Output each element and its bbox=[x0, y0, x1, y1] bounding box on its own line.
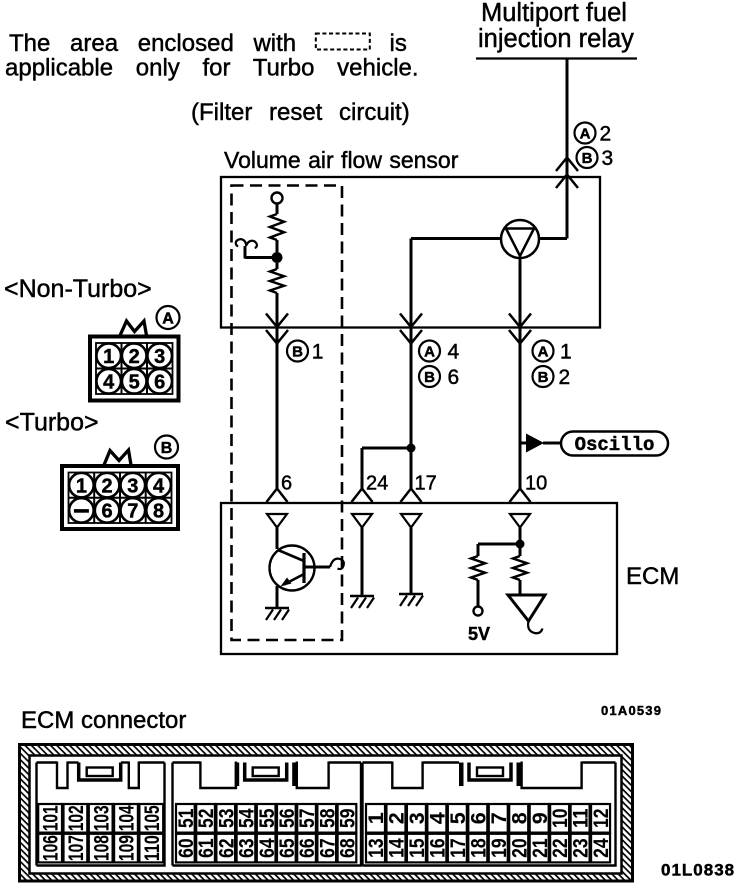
svg-text:4: 4 bbox=[103, 372, 115, 394]
svg-text:12: 12 bbox=[589, 809, 613, 829]
svg-text:6: 6 bbox=[448, 366, 460, 389]
svg-text:59: 59 bbox=[336, 809, 360, 829]
svg-text:3: 3 bbox=[127, 475, 138, 497]
svg-text:Volume air flow sensor: Volume air flow sensor bbox=[224, 147, 459, 173]
svg-text:3: 3 bbox=[602, 147, 614, 170]
svg-text:110: 110 bbox=[140, 835, 164, 861]
svg-text:68: 68 bbox=[336, 838, 360, 858]
svg-text:1: 1 bbox=[103, 346, 114, 368]
svg-text:B: B bbox=[161, 440, 173, 457]
svg-text:17: 17 bbox=[415, 473, 437, 495]
svg-text:2: 2 bbox=[102, 475, 113, 497]
svg-text:A: A bbox=[538, 343, 549, 360]
svg-text:ECM connector: ECM connector bbox=[21, 707, 186, 734]
svg-text:10: 10 bbox=[525, 473, 547, 495]
svg-text:1: 1 bbox=[312, 341, 324, 364]
svg-text:<Non-Turbo>: <Non-Turbo> bbox=[4, 275, 152, 303]
svg-text:B: B bbox=[538, 369, 549, 386]
svg-text:A: A bbox=[162, 310, 174, 327]
svg-text:2: 2 bbox=[129, 346, 140, 368]
svg-text:4: 4 bbox=[448, 341, 460, 364]
svg-text:1: 1 bbox=[76, 475, 87, 497]
svg-text:4: 4 bbox=[153, 475, 165, 497]
svg-text:Multiport fuel: Multiport fuel bbox=[481, 0, 627, 27]
svg-text:102: 102 bbox=[64, 805, 88, 831]
svg-text:5V: 5V bbox=[468, 624, 490, 644]
svg-text:6: 6 bbox=[281, 473, 292, 495]
svg-text:6: 6 bbox=[154, 372, 165, 394]
svg-text:2: 2 bbox=[600, 123, 612, 146]
svg-text:01A0539: 01A0539 bbox=[601, 703, 662, 718]
svg-text:1: 1 bbox=[560, 341, 572, 364]
svg-text:104: 104 bbox=[115, 805, 139, 831]
svg-text:injection relay: injection relay bbox=[478, 25, 634, 53]
svg-text:A: A bbox=[580, 125, 591, 142]
svg-text:109: 109 bbox=[115, 835, 139, 861]
svg-text:(Filter reset circuit): (Filter reset circuit) bbox=[191, 99, 410, 126]
svg-text:24: 24 bbox=[366, 473, 388, 495]
svg-text:B: B bbox=[292, 343, 303, 360]
svg-text:6: 6 bbox=[102, 501, 113, 523]
svg-text:B: B bbox=[424, 369, 435, 386]
svg-text:Oscillo: Oscillo bbox=[575, 434, 655, 456]
svg-text:is: is bbox=[390, 30, 407, 57]
svg-text:5: 5 bbox=[129, 372, 140, 394]
svg-text:B: B bbox=[582, 150, 593, 167]
svg-text:The area enclosed with: The area enclosed with bbox=[9, 30, 296, 57]
svg-text:106: 106 bbox=[39, 835, 63, 861]
svg-text:103: 103 bbox=[89, 805, 113, 831]
svg-text:3: 3 bbox=[154, 346, 165, 368]
svg-text:A: A bbox=[424, 343, 435, 360]
svg-text:7: 7 bbox=[127, 501, 138, 523]
svg-text:24: 24 bbox=[589, 838, 613, 858]
svg-text:2: 2 bbox=[559, 366, 571, 389]
svg-text:8: 8 bbox=[153, 501, 164, 523]
svg-text:105: 105 bbox=[140, 805, 164, 831]
svg-text:101: 101 bbox=[39, 805, 63, 831]
svg-text:<Turbo>: <Turbo> bbox=[5, 409, 99, 437]
svg-text:107: 107 bbox=[64, 835, 88, 861]
svg-text:108: 108 bbox=[89, 835, 113, 861]
svg-text:01L0838: 01L0838 bbox=[661, 861, 735, 880]
svg-text:ECM: ECM bbox=[626, 563, 679, 590]
svg-text:applicable only for Turbo vehi: applicable only for Turbo vehicle. bbox=[5, 55, 419, 82]
